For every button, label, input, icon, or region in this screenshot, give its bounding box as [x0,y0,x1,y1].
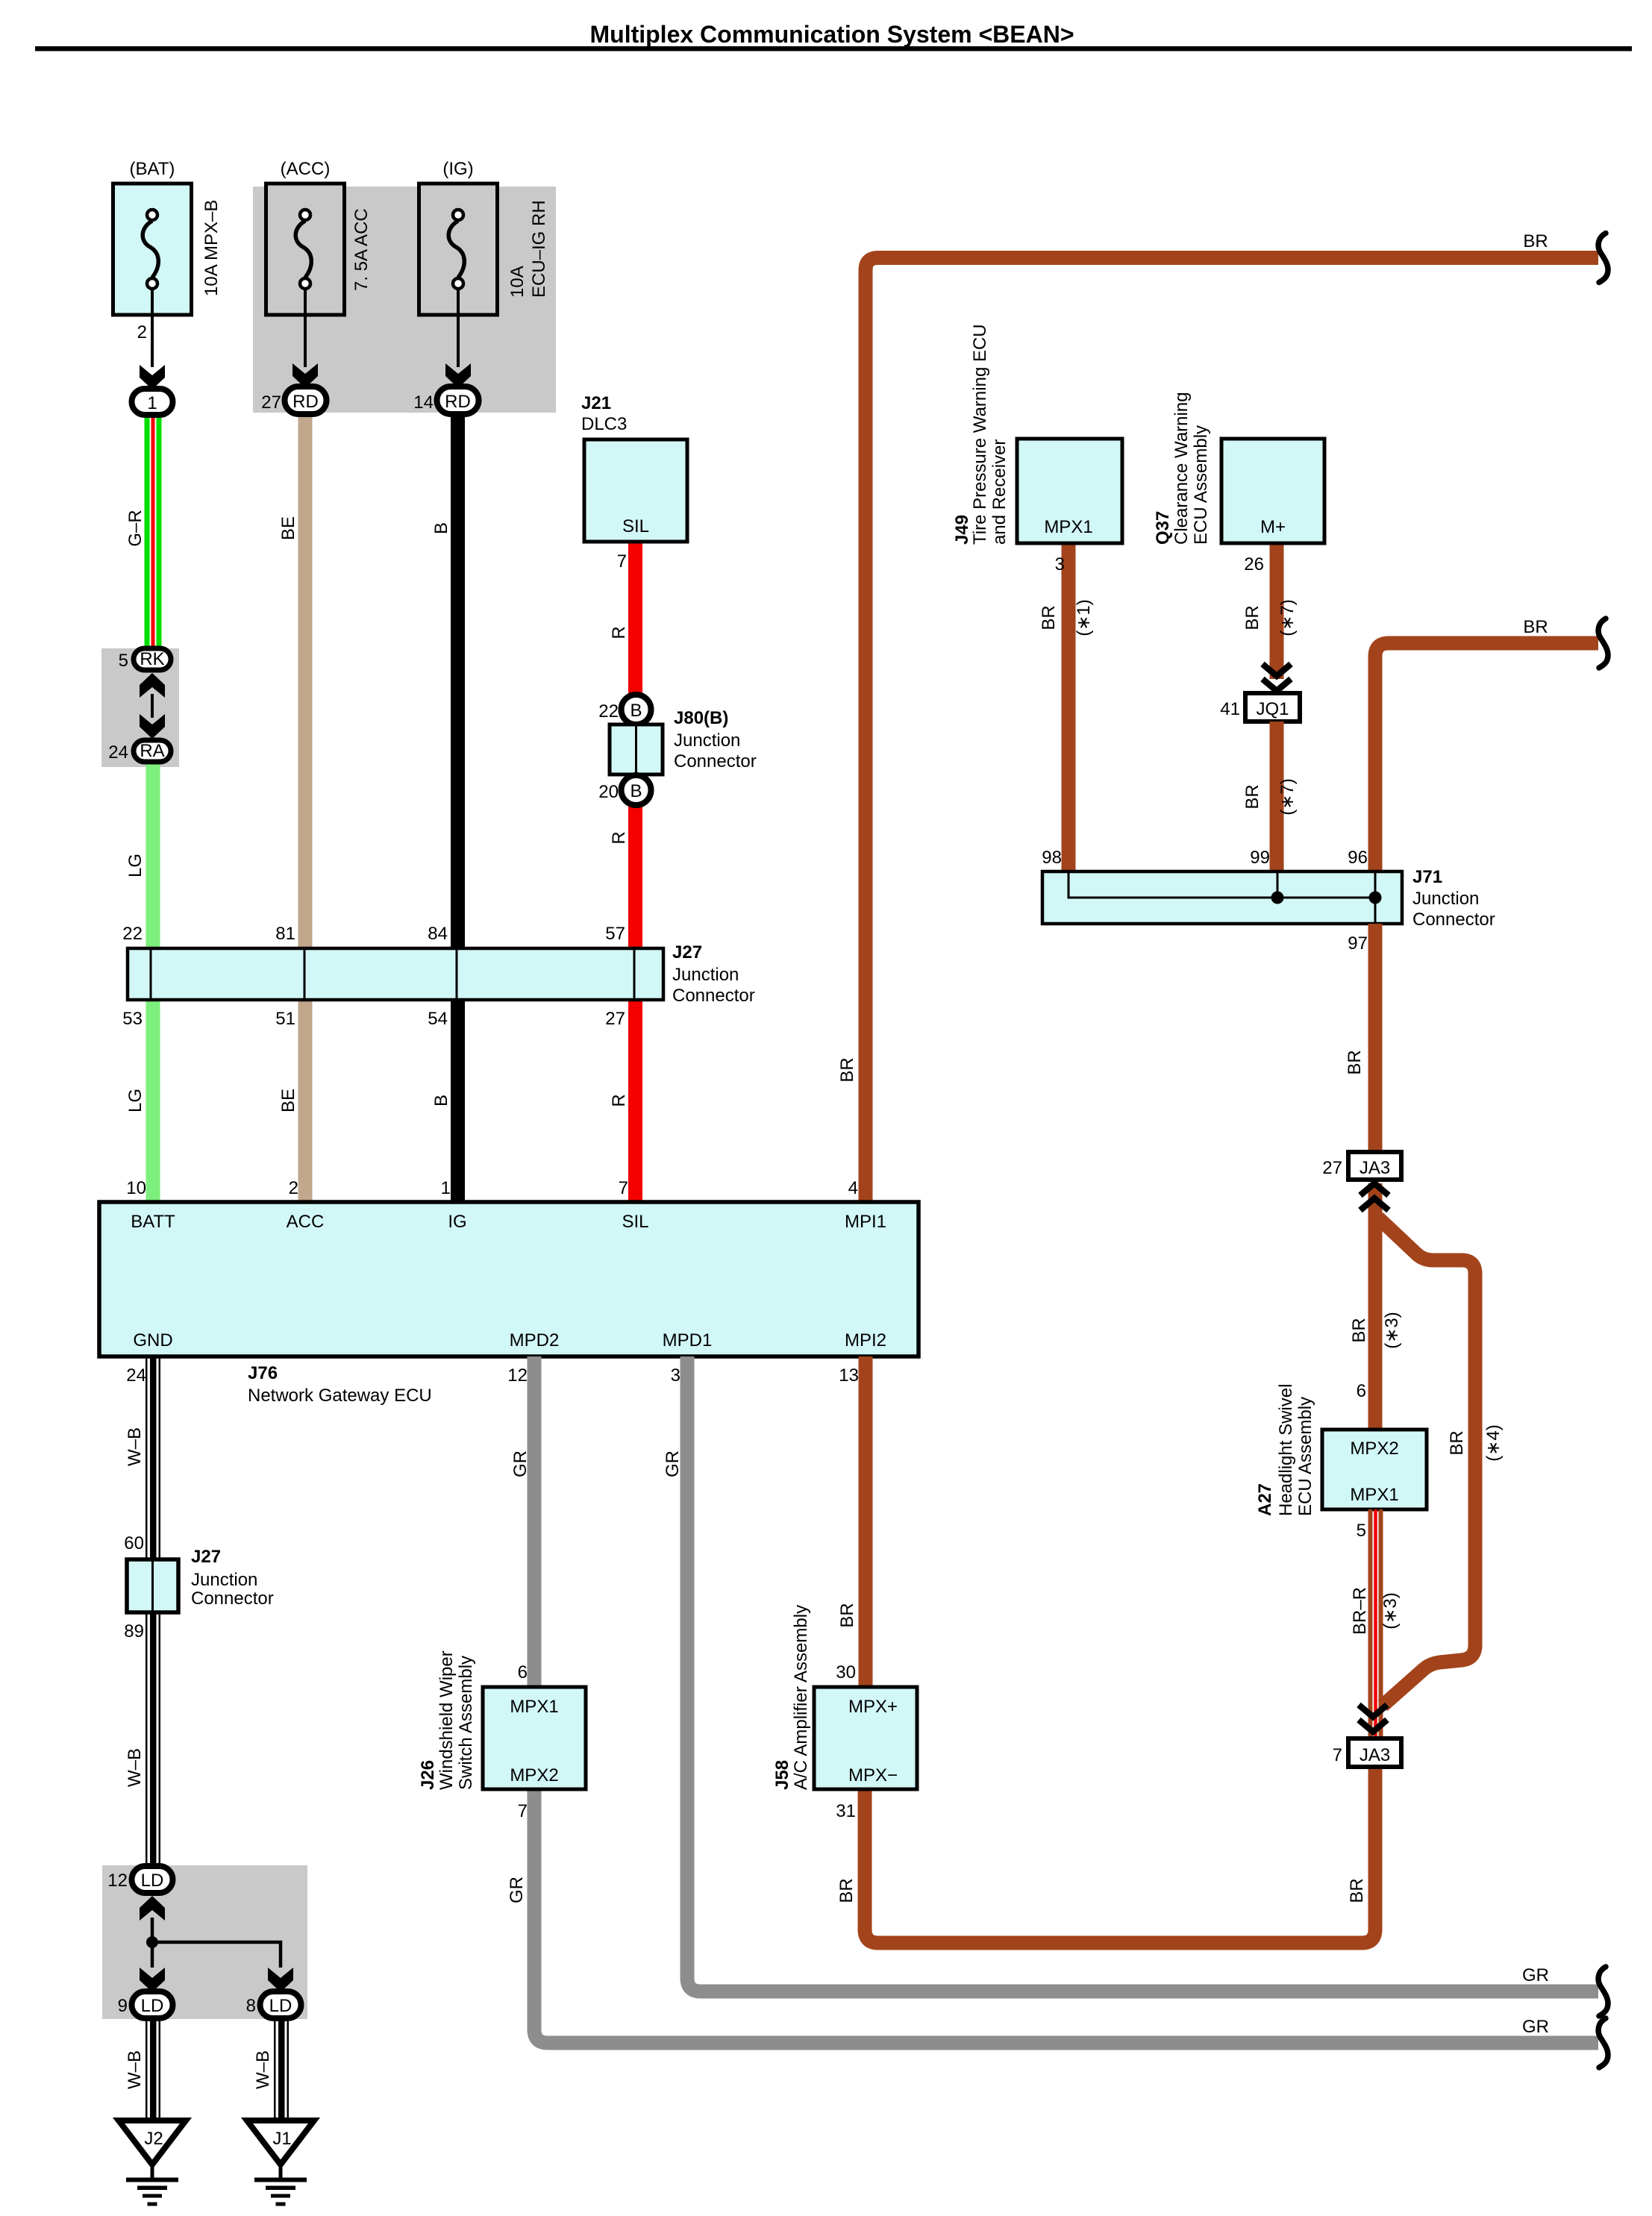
svg-text:GR: GR [1522,2017,1549,2037]
svg-text:BR: BR [1347,1878,1367,1903]
svg-text:Q37: Q37 [1153,511,1173,545]
svg-text:BR: BR [1523,231,1548,251]
ground J2 [119,2120,186,2206]
svg-text:and Receiver: and Receiver [989,439,1010,545]
svg-text:Headlight Swivel: Headlight Swivel [1276,1384,1296,1516]
fuse (IG) 10A ECU-IG RH [419,159,550,367]
svg-text:Windshield Wiper: Windshield Wiper [437,1650,457,1790]
svg-text:4: 4 [848,1178,858,1198]
svg-text:LG: LG [125,1089,146,1112]
svg-text:6: 6 [518,1662,528,1683]
wire BR from J76 MPI1 to right edge [837,231,1598,1202]
J71 junction connector bar [1042,867,1495,930]
gray background region: LD splice block [102,1865,307,2019]
svg-text:7: 7 [617,551,627,572]
svg-text:MPX1: MPX1 [1350,1485,1398,1505]
svg-text:ECU Assembly: ECU Assembly [1295,1397,1315,1516]
wire G-R from connector 1 to RK [125,413,162,648]
svg-text:MPI1: MPI1 [845,1212,886,1232]
svg-text:24: 24 [126,1365,146,1386]
svg-text:14: 14 [413,392,434,413]
svg-text:MPX2: MPX2 [510,1765,558,1785]
svg-text:31: 31 [836,1801,856,1821]
connector 1 [132,389,173,415]
connector RK pin 5 [119,648,171,671]
svg-text:LD: LD [141,1871,164,1891]
wire B from J27 to J76 IG [431,1000,465,1202]
chevron arrows down into JA3 7 [1359,1705,1387,1732]
JA3 junction pin 27 [1322,1152,1401,1180]
svg-text:J80(B): J80(B) [674,708,728,728]
svg-text:BR: BR [1242,605,1263,630]
fuse (BAT) 10A MPX-B [113,159,222,367]
wire BR from Q37 M+ pin 26 to JQ1 [1242,543,1298,679]
svg-text:(∗3): (∗3) [1382,1312,1402,1348]
svg-text:3: 3 [671,1365,680,1386]
svg-text:89: 89 [124,1621,144,1641]
svg-text:27: 27 [605,1009,625,1029]
wire BR from J76 MPI2 to J58 MPX+ [837,1356,873,1687]
svg-text:G–R: G–R [125,510,146,546]
J76 Network Gateway ECU box [99,1202,919,1406]
wire B from RD 14 to J27 [431,413,465,948]
svg-text:LG: LG [125,854,146,877]
svg-text:MPX2: MPX2 [1350,1439,1398,1459]
svg-text:IG: IG [448,1212,466,1232]
wire R from DLC3 SIL to J27 [609,540,642,948]
wire W-B from LD 8 to ground J1 [253,2018,289,2120]
svg-text:10: 10 [126,1178,146,1198]
svg-text:BR: BR [836,1878,857,1903]
svg-text:RD: RD [292,392,319,412]
wire GR from J76 MPD1 to right edge [663,1356,1598,1991]
wire R from J27 to J76 SIL [609,1000,642,1202]
svg-text:(BAT): (BAT) [130,159,175,179]
J80(B) junction connector box [610,708,757,774]
svg-text:84: 84 [428,924,448,944]
svg-text:53: 53 [122,1009,143,1029]
wire LG from J27 to J76 BATT [125,1000,160,1202]
svg-text:BR: BR [1039,605,1059,630]
svg-text:BATT: BATT [131,1212,175,1232]
J49 Tire Pressure Warning ECU and Receiver box [952,324,1122,575]
svg-text:20: 20 [598,782,619,802]
connector LD pin 12 [107,1866,172,1893]
svg-text:SIL: SIL [622,1212,648,1232]
svg-text:JA3: JA3 [1360,1158,1390,1178]
svg-text:JA3: JA3 [1360,1745,1390,1765]
wire BR from J71 97 to A27 MPX2 [1345,924,1402,1430]
svg-text:27: 27 [261,392,281,413]
svg-text:JQ1: JQ1 [1256,699,1289,719]
svg-text:5: 5 [1357,1521,1366,1541]
svg-text:81: 81 [275,924,295,944]
svg-text:10A MPX–B: 10A MPX–B [201,200,222,296]
arrow down into LD 9 [140,1968,165,1992]
wire BR from JQ1 to J71 99 [1242,722,1298,871]
svg-text:J49: J49 [952,515,972,545]
svg-text:BE: BE [278,516,298,540]
svg-text:(∗7): (∗7) [1277,778,1298,815]
svg-text:J27: J27 [672,942,702,963]
wire GR from J76 MPD2 to J26 MPX1 [510,1356,542,1687]
J27 junction connector bar [128,942,755,1006]
svg-text:7: 7 [518,1801,528,1821]
continuation squiggle GR J26 [1598,2018,1608,2068]
connector LD pin 8 [246,1991,301,2018]
svg-text:BR: BR [1447,1430,1467,1455]
svg-text:GR: GR [1522,1965,1549,1985]
svg-text:7: 7 [619,1178,628,1198]
chevron arrows up into JA3 27 [1360,1183,1389,1210]
gray background region: RK/RA connector block [101,648,179,767]
wire BE from J27 to J76 ACC [278,1000,313,1202]
svg-text:MPX1: MPX1 [510,1697,558,1717]
svg-text:R: R [609,1094,629,1107]
svg-text:41: 41 [1220,699,1240,719]
svg-text:3: 3 [1055,554,1065,575]
svg-text:GR: GR [510,1450,531,1477]
arrow into connector 1 [140,365,165,389]
svg-text:ECU–IG RH: ECU–IG RH [529,200,549,298]
svg-text:Switch Assembly: Switch Assembly [456,1656,476,1790]
fuse (ACC) 7.5A ACC [266,159,372,367]
svg-text:J1: J1 [272,2129,291,2149]
svg-text:R: R [609,831,629,844]
connector RD pin 14 [413,386,478,414]
svg-text:M+: M+ [1260,517,1286,537]
svg-text:J2: J2 [144,2129,163,2149]
svg-text:(IG): (IG) [442,159,473,179]
svg-text:J26: J26 [418,1760,438,1790]
arrow into connector RD 27 [292,363,318,388]
svg-text:Clearance Warning: Clearance Warning [1171,392,1192,545]
Q37 Clearance Warning ECU Assembly box [1153,392,1324,575]
connector B pin 20 [598,775,651,805]
wire BR branch (*4) from JA3 27 to JA3 7 [1378,1218,1504,1706]
svg-text:BR: BR [1523,617,1548,637]
svg-text:Connector: Connector [1412,910,1495,930]
svg-text:GR: GR [663,1450,683,1477]
svg-text:12: 12 [507,1365,528,1386]
ground J1 [247,2120,314,2206]
wire W-B from J76 GND to J27 [125,1356,160,1559]
svg-text:6: 6 [1357,1381,1366,1401]
svg-text:Junction: Junction [191,1570,257,1590]
svg-text:ECU Assembly: ECU Assembly [1191,425,1211,545]
svg-text:J71: J71 [1412,867,1442,887]
svg-text:W–B: W–B [125,1748,145,1787]
svg-text:DLC3: DLC3 [581,414,627,434]
svg-text:8: 8 [246,1996,256,2016]
svg-text:(∗3): (∗3) [1380,1592,1401,1629]
J21 DLC3 box [581,393,687,572]
svg-text:BE: BE [278,1089,298,1112]
svg-text:B: B [630,781,642,801]
svg-text:J27: J27 [191,1547,221,1567]
svg-text:Junction: Junction [674,730,740,751]
svg-text:9: 9 [118,1996,128,2016]
svg-text:26: 26 [1244,554,1264,575]
svg-text:BR: BR [837,1603,857,1627]
svg-text:W–B: W–B [125,2050,145,2089]
connector RA pin 24 [108,740,171,763]
arrow into connector RD 14 [445,363,471,388]
arrow up into LD 12 [140,1896,165,1921]
svg-text:Connector: Connector [672,986,755,1006]
svg-text:Network Gateway ECU: Network Gateway ECU [248,1386,432,1406]
svg-text:MPD2: MPD2 [510,1330,560,1350]
svg-text:BR–R: BR–R [1350,1587,1370,1635]
wire BR-R from A27 MPX1 pin 5 to JA3 7 [1350,1509,1401,1738]
svg-text:57: 57 [605,924,625,944]
svg-text:22: 22 [122,924,143,944]
svg-text:BR: BR [837,1057,857,1082]
wire GR from J26 MPX2 to right edge [507,1789,1598,2043]
svg-text:96: 96 [1348,848,1368,868]
svg-text:A27: A27 [1255,1483,1275,1516]
svg-text:7: 7 [1333,1745,1342,1765]
svg-text:BR: BR [1349,1318,1369,1342]
double arrow between RK and RA [140,673,165,739]
J58 A/C Amplifier Assembly box [772,1605,917,1821]
connector LD pin 9 [118,1991,173,2018]
svg-text:RD: RD [445,392,471,412]
svg-text:MPD1: MPD1 [663,1330,713,1350]
svg-text:W–B: W–B [253,2050,273,2089]
JQ1 junction pin 41 [1220,693,1300,722]
svg-text:Junction: Junction [1412,889,1479,909]
svg-text:(∗1): (∗1) [1074,599,1094,636]
svg-text:99: 99 [1250,848,1270,868]
svg-text:B: B [431,1095,451,1107]
svg-text:GR: GR [507,1877,527,1903]
connector B pin 22 [598,695,651,724]
wire W-B from J27 to LD 12 [125,1612,160,1867]
svg-text:MPI2: MPI2 [845,1330,886,1350]
svg-text:2: 2 [137,322,147,342]
svg-text:24: 24 [108,742,128,763]
svg-text:MPX+: MPX+ [848,1697,898,1717]
svg-text:LD: LD [269,1996,292,2016]
svg-text:1: 1 [441,1178,451,1198]
JA3 junction pin 7 [1333,1738,1401,1767]
connector RD pin 27 [261,386,326,414]
svg-text:22: 22 [598,701,619,722]
svg-text:B: B [630,701,642,721]
svg-text:GND: GND [133,1330,172,1350]
svg-text:27: 27 [1322,1158,1342,1178]
svg-text:12: 12 [107,1871,128,1891]
title rule [35,46,1632,51]
svg-text:Tire Pressure Warning ECU: Tire Pressure Warning ECU [970,324,990,545]
svg-text:J58: J58 [772,1760,792,1790]
svg-text:BR: BR [1345,1050,1365,1074]
continuation squiggle MPI1 BR [1598,234,1608,283]
svg-text:2: 2 [289,1178,298,1198]
chevron arrows into JQ1 [1263,664,1291,691]
J26 Windshield Wiper Switch Assembly box [418,1650,586,1821]
svg-text:(∗7): (∗7) [1277,599,1298,636]
svg-text:60: 60 [124,1533,144,1553]
svg-text:98: 98 [1042,848,1062,868]
svg-text:97: 97 [1348,933,1368,954]
splice junction wire with node dot [146,1918,281,1968]
svg-text:BR: BR [1242,784,1263,809]
svg-text:B: B [431,522,451,534]
svg-text:(ACC): (ACC) [281,159,331,179]
svg-text:LD: LD [141,1996,164,2016]
gray background region: ACC/IG fuse block [253,187,556,413]
wire BE from RD 27 to J27 [278,413,313,948]
svg-text:MPX−: MPX− [848,1765,898,1785]
svg-text:ACC: ACC [287,1212,325,1232]
svg-text:RK: RK [140,649,164,669]
wire LG from RA to J27 [125,761,160,948]
svg-text:Connector: Connector [674,751,757,771]
svg-text:SIL: SIL [622,516,649,536]
svg-text:54: 54 [428,1009,448,1029]
svg-text:7. 5A ACC: 7. 5A ACC [351,208,372,291]
svg-text:Connector: Connector [191,1589,274,1609]
svg-text:MPX1: MPX1 [1044,517,1092,537]
svg-text:J21: J21 [581,393,611,413]
wire W-B from LD 9 to ground J2 [125,2018,160,2120]
J27 junction connector small box pins 60/89 [124,1533,273,1641]
svg-text:Junction: Junction [672,965,739,985]
wire BR from right edge to J71 96 [1375,617,1598,871]
A27 Headlight Swivel ECU Assembly box [1255,1384,1427,1541]
arrow down into LD 8 [268,1968,293,1992]
svg-text:W–B: W–B [125,1427,145,1466]
svg-text:30: 30 [836,1662,856,1683]
continuation squiggle BR J71 [1598,619,1608,668]
wire BR from J58 MPX- to JA3 7 [836,1767,1375,1943]
continuation squiggle GR MPD1 [1598,1967,1608,2016]
svg-text:1: 1 [147,393,157,413]
svg-text:A/C Amplifier Assembly: A/C Amplifier Assembly [791,1605,811,1790]
svg-text:RA: RA [140,741,164,761]
svg-text:(∗4): (∗4) [1483,1424,1504,1461]
svg-text:R: R [609,626,629,639]
svg-text:13: 13 [839,1365,859,1386]
svg-text:51: 51 [275,1009,295,1029]
svg-text:Multiplex Communication System: Multiplex Communication System <BEAN> [589,21,1074,48]
wire BR from J49 MPX1 pin 3 to J71 98 [1039,543,1094,871]
svg-text:10A: 10A [507,266,528,298]
svg-text:J76: J76 [248,1363,278,1383]
svg-text:5: 5 [119,651,128,671]
